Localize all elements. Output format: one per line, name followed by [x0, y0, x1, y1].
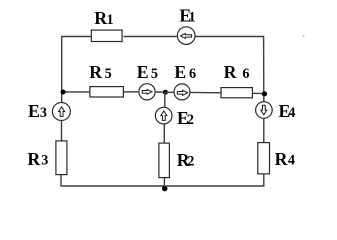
source E3 [28, 101, 70, 121]
wire: E4 to R4 [263, 119, 265, 142]
node: left junction dot [61, 90, 66, 95]
wire: node to E6 [165, 91, 174, 93]
wire: E6 to R6 [190, 91, 221, 93]
resistor R1 [91, 8, 122, 42]
svg-text:R: R [27, 149, 40, 169]
resistor R2 [159, 143, 194, 178]
svg-text:2: 2 [187, 154, 194, 170]
svg-text:E: E [28, 101, 40, 121]
svg-text:3: 3 [41, 153, 48, 169]
speck: faint gray dot top right [303, 35, 305, 37]
svg-text:4: 4 [288, 105, 295, 121]
source E2 [155, 92, 194, 128]
svg-text:1: 1 [107, 12, 114, 28]
wire: top rail left segment [62, 37, 91, 104]
wire: R2 to bottom node [163, 178, 165, 186]
wire: E3 to R3 [61, 121, 63, 140]
source E4 [256, 101, 296, 121]
wire: top rail right segment and right vertical down to node [195, 37, 263, 102]
resistor R4 [258, 143, 295, 174]
svg-text:4: 4 [288, 153, 295, 169]
svg-text:6: 6 [189, 66, 196, 82]
wire: R5 to E5 [124, 91, 138, 93]
node: bottom junction dot [162, 186, 168, 192]
svg-text:E: E [174, 62, 186, 82]
wire: E5 to middle node [156, 91, 166, 93]
svg-text:2: 2 [187, 112, 194, 128]
wire: E2 to R2 [163, 124, 165, 142]
svg-text:5: 5 [105, 66, 112, 82]
source E5 [137, 62, 158, 100]
wire: R3 down and bottom rail left segment [61, 175, 164, 186]
svg-text:R: R [94, 8, 107, 28]
wire: R6 to right node [253, 92, 264, 94]
source E1 [177, 6, 195, 45]
svg-text:E: E [137, 62, 149, 82]
svg-text:1: 1 [189, 10, 196, 26]
node: right junction dot [262, 91, 267, 96]
svg-text:R: R [275, 149, 288, 169]
svg-text:R: R [89, 62, 102, 82]
svg-text:3: 3 [40, 105, 47, 121]
wire: R4 down and bottom rail right segment [164, 175, 264, 187]
svg-text:6: 6 [242, 66, 249, 82]
node: middle junction dot [163, 90, 168, 95]
wire: top rail middle segment [124, 36, 178, 38]
svg-text:R: R [224, 62, 237, 82]
resistor R3 [27, 141, 67, 175]
svg-text:5: 5 [151, 66, 158, 82]
resistor R6 [221, 62, 252, 98]
source E6 [174, 62, 196, 100]
resistor R5 [89, 62, 123, 97]
wire: second row left stub [62, 91, 89, 93]
